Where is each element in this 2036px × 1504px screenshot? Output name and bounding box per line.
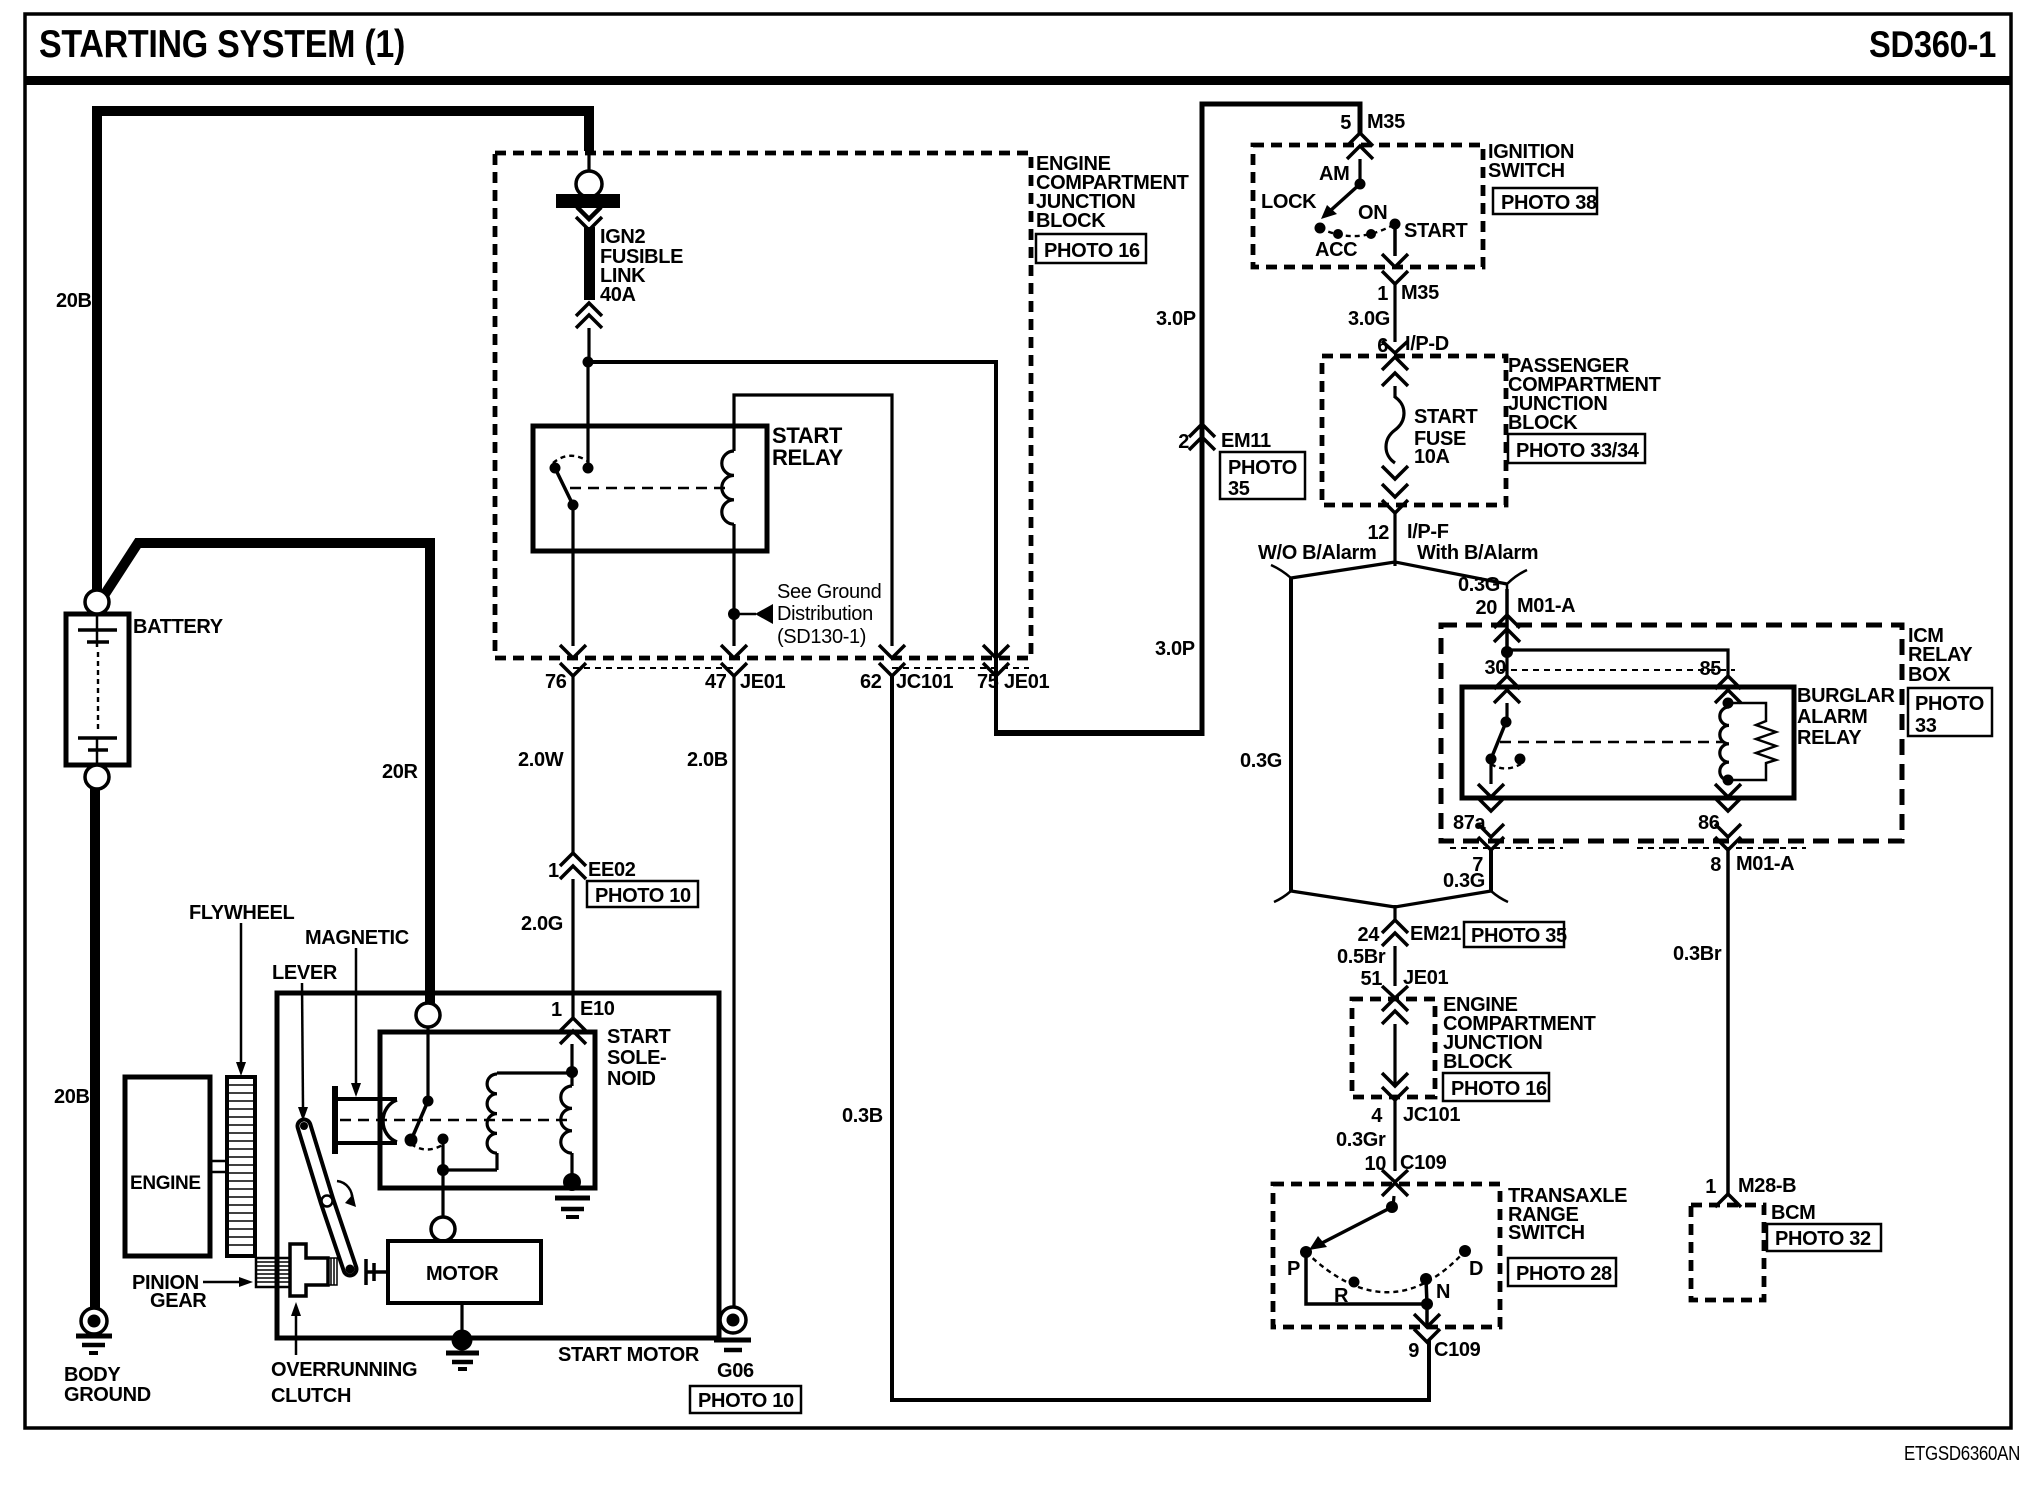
pin 86 chevrons down bbox=[1715, 784, 1741, 797]
svg-text:12: 12 bbox=[1367, 522, 1389, 544]
ignition START contact dot bbox=[1390, 219, 1401, 230]
svg-text:LOCK: LOCK bbox=[1261, 191, 1317, 213]
wire 87a to merge bbox=[1489, 850, 1493, 891]
relay switch blade bbox=[1491, 722, 1506, 759]
svg-text:PHOTO 38: PHOTO 38 bbox=[1501, 192, 1597, 214]
burglar alarm relay box bbox=[1462, 687, 1794, 798]
wire motor to ground bbox=[460, 1303, 463, 1336]
start motor outer box bbox=[277, 993, 719, 1338]
svg-text:G06: G06 bbox=[717, 1360, 754, 1382]
battery B01 bottom terminal circle bbox=[85, 765, 109, 789]
svg-text:E10: E10 bbox=[580, 998, 615, 1020]
solenoid switch pivot dot bbox=[423, 1096, 434, 1107]
svg-text:47: 47 bbox=[705, 671, 727, 693]
wire to switch wiper bbox=[1393, 1196, 1394, 1207]
wire pull-in coil bottom bbox=[495, 1153, 498, 1170]
svg-text:85: 85 bbox=[1699, 658, 1721, 680]
ignition wiper blade bbox=[1330, 184, 1360, 211]
svg-text:PHOTO 10: PHOTO 10 bbox=[698, 1390, 794, 1412]
wire merge left diagonal bbox=[1291, 891, 1395, 907]
start solenoid box bbox=[380, 1032, 595, 1188]
junction block chevrons up bbox=[1382, 998, 1408, 1011]
fusible link IGN2 body bbox=[584, 227, 595, 300]
wire merge to EM21 bbox=[1393, 905, 1396, 920]
svg-text:START: START bbox=[1414, 406, 1478, 428]
pin 85 chevrons up bbox=[1715, 676, 1741, 689]
svg-text:0.3Gr: 0.3Gr bbox=[1336, 1129, 1386, 1151]
ground distribution pointer bbox=[734, 613, 756, 616]
svg-text:BURGLAR: BURGLAR bbox=[1797, 685, 1895, 707]
wire 20R battery cable to start solenoid bbox=[103, 543, 430, 1003]
svg-text:M01-A: M01-A bbox=[1736, 853, 1794, 875]
wire 3.0P riser EM11 to M35 bbox=[1202, 104, 1360, 736]
svg-text:SOLE-: SOLE- bbox=[607, 1047, 666, 1069]
burglar alarm relay coil bbox=[1720, 707, 1729, 781]
motor terminal circle bbox=[431, 1217, 455, 1241]
svg-text:EE02: EE02 bbox=[588, 859, 636, 881]
svg-text:20B: 20B bbox=[56, 290, 92, 312]
transaxle wiper blade bbox=[1322, 1207, 1392, 1243]
wire to fuse bbox=[1393, 386, 1396, 398]
start relay mechanical dashed link bbox=[570, 487, 731, 489]
svg-text:MOTOR: MOTOR bbox=[426, 1263, 499, 1285]
relay switch blade end dot bbox=[1486, 754, 1497, 765]
svg-text:LEVER: LEVER bbox=[272, 962, 338, 984]
battery internal plates bbox=[78, 616, 117, 763]
svg-text:0.5Br: 0.5Br bbox=[1337, 946, 1386, 968]
wire 0.3B 62 to transaxle return bbox=[892, 676, 1429, 1400]
transaxle contacts dashed arc bbox=[1306, 1251, 1465, 1292]
svg-text:20R: 20R bbox=[382, 761, 419, 783]
svg-text:2: 2 bbox=[1178, 431, 1189, 453]
connector strip dashes 62-75 bbox=[892, 667, 1029, 669]
relay mechanical dashed link bbox=[1500, 741, 1723, 743]
connector C109-9 chevrons down bbox=[1414, 1314, 1440, 1327]
connector EM11 chevrons up bbox=[1189, 424, 1215, 437]
solenoid ground symbol bbox=[555, 1198, 590, 1217]
ICM relay box dashed border bbox=[1441, 625, 1902, 841]
svg-text:With B/Alarm: With B/Alarm bbox=[1417, 542, 1538, 564]
svg-text:I/P-F: I/P-F bbox=[1407, 521, 1449, 543]
photo 10 ref box EE02 bbox=[587, 881, 698, 907]
start relay box bbox=[533, 426, 767, 551]
transaxle D contact dot bbox=[1459, 1245, 1471, 1257]
photo 33 ref box bbox=[1908, 688, 1992, 736]
svg-text:35: 35 bbox=[1228, 478, 1250, 500]
wire START terminal down bbox=[1393, 224, 1397, 256]
svg-text:62: 62 bbox=[860, 671, 882, 693]
junction node dot bbox=[583, 357, 594, 368]
svg-text:JC101: JC101 bbox=[896, 671, 953, 693]
svg-text:MAGNETIC: MAGNETIC bbox=[305, 927, 409, 949]
solenoid mechanical dashed link bbox=[340, 1119, 568, 1121]
connector M01-A-7 chevrons down bbox=[1478, 824, 1504, 837]
passenger compartment junction block dashed box bbox=[1322, 356, 1506, 505]
svg-text:4: 4 bbox=[1371, 1105, 1383, 1127]
svg-text:24: 24 bbox=[1357, 924, 1380, 946]
svg-text:BODY: BODY bbox=[64, 1364, 121, 1386]
connector 76 chevrons bbox=[560, 645, 586, 658]
svg-text:PHOTO: PHOTO bbox=[1228, 457, 1297, 479]
ignition ON contact dot bbox=[1366, 229, 1376, 239]
svg-text:GROUND: GROUND bbox=[64, 1384, 151, 1406]
solenoid pull-in coil bbox=[487, 1074, 497, 1153]
fusible link chevrons down bbox=[577, 207, 601, 219]
switch input chevron up bbox=[1382, 1183, 1408, 1196]
svg-text:76: 76 bbox=[545, 671, 567, 693]
svg-text:3.0G: 3.0G bbox=[1348, 308, 1390, 330]
svg-text:BATTERY: BATTERY bbox=[133, 616, 224, 638]
wire coil low to 86 bbox=[1726, 780, 1729, 784]
solenoid 20R terminal circle bbox=[416, 1003, 440, 1027]
wire node to pull-in coil bbox=[443, 1168, 497, 1171]
start relay switch common dot bbox=[583, 463, 594, 474]
svg-text:9: 9 bbox=[1408, 1340, 1419, 1362]
engine junction block small dashed box bbox=[1352, 999, 1435, 1097]
transaxle range switch dashed box bbox=[1273, 1184, 1500, 1327]
ground G06 symbol bbox=[714, 1307, 751, 1350]
svg-text:ENGINE: ENGINE bbox=[130, 1173, 201, 1194]
wire 20B battery negative cable to body ground bbox=[90, 788, 100, 1309]
solenoid hold-in coil bbox=[561, 1086, 572, 1153]
wire 3.0P jog to EM11 riser bbox=[994, 730, 1202, 736]
photo 35 ref box EM21 bbox=[1464, 922, 1564, 947]
M01-A connector strip dashes right bbox=[1637, 847, 1806, 849]
svg-text:1: 1 bbox=[548, 860, 559, 882]
wire rail to connector 9 bbox=[1425, 1304, 1429, 1328]
ICM feed node dot bbox=[1501, 646, 1513, 658]
start fuse 10A element bbox=[1386, 397, 1404, 463]
wire hold-in coil to case ground bbox=[570, 1153, 573, 1186]
wire fusible link to junction node bbox=[587, 328, 590, 362]
fusible link input stub bbox=[587, 153, 590, 172]
transaxle N contact dot bbox=[1420, 1273, 1432, 1285]
lever arm bbox=[300, 1122, 355, 1274]
connector M28-B chevron up bbox=[1715, 1194, 1741, 1207]
transaxle P contact dot bbox=[1300, 1246, 1312, 1258]
svg-text:2.0B: 2.0B bbox=[687, 749, 728, 771]
lever rotation arrow bbox=[337, 1181, 352, 1200]
wire split left diagonal bbox=[1291, 562, 1395, 578]
ground distribution junction dot bbox=[728, 608, 740, 620]
svg-text:51: 51 bbox=[1360, 968, 1382, 990]
svg-text:20: 20 bbox=[1475, 597, 1497, 619]
svg-text:BOX: BOX bbox=[1908, 664, 1951, 686]
relay coil wire top bbox=[1726, 703, 1729, 707]
wire 2.0W 76 to EE02 bbox=[571, 676, 574, 854]
start relay moving blade bbox=[555, 468, 573, 505]
wire node to start relay switch bbox=[586, 362, 589, 467]
solenoid contact dashed arc bbox=[411, 1144, 444, 1150]
svg-text:EM11: EM11 bbox=[1221, 430, 1271, 452]
connector I/P-F chevron crossing bbox=[1382, 500, 1408, 513]
body ground G symbol bbox=[76, 1308, 112, 1353]
svg-text:SWITCH: SWITCH bbox=[1488, 160, 1565, 182]
wire I/P-F to split bbox=[1393, 513, 1396, 566]
photo 16 ref box lower bbox=[1443, 1073, 1549, 1101]
wire start relay coil low side to 47 JE01 bbox=[732, 524, 735, 646]
svg-text:START MOTOR: START MOTOR bbox=[558, 1344, 700, 1366]
svg-text:1: 1 bbox=[1377, 283, 1388, 305]
wire split right diagonal bbox=[1395, 562, 1507, 584]
motor ground symbol bbox=[446, 1353, 479, 1369]
clutch shaft bracket bbox=[366, 1259, 388, 1285]
svg-text:75: 75 bbox=[977, 671, 999, 693]
connector 62 JC101 chevrons bbox=[879, 645, 905, 658]
fusible link terminal circle bbox=[576, 171, 602, 197]
connector E10 chevrons up bbox=[560, 1018, 586, 1031]
wire 2.0B 47 to G06 bbox=[732, 676, 735, 1307]
svg-text:0.3G: 0.3G bbox=[1240, 750, 1282, 772]
svg-text:BLOCK: BLOCK bbox=[1036, 210, 1106, 232]
svg-text:PHOTO 16: PHOTO 16 bbox=[1451, 1078, 1547, 1100]
svg-text:STARTING SYSTEM (1): STARTING SYSTEM (1) bbox=[39, 23, 405, 66]
svg-text:I/P-D: I/P-D bbox=[1405, 333, 1449, 355]
solenoid ground dot bbox=[563, 1173, 581, 1191]
svg-text:RELAY: RELAY bbox=[772, 445, 843, 470]
relay switch input dot bbox=[1501, 717, 1512, 728]
svg-text:ON: ON bbox=[1358, 202, 1387, 224]
svg-text:2.0W: 2.0W bbox=[518, 749, 564, 771]
ignition ACC contact dot bbox=[1333, 229, 1343, 239]
svg-text:PHOTO: PHOTO bbox=[1915, 693, 1984, 715]
connector strip dashes 76-47 bbox=[573, 667, 734, 669]
svg-text:D: D bbox=[1469, 1258, 1483, 1280]
svg-text:30: 30 bbox=[1484, 657, 1506, 679]
ignition contacts dashed arc bbox=[1320, 224, 1395, 236]
photo 28 ref box bbox=[1508, 1258, 1616, 1286]
engine to flywheel coupling bbox=[210, 1161, 227, 1172]
ignition switch dashed box bbox=[1253, 145, 1483, 267]
fusible link bus bar bbox=[556, 194, 620, 208]
svg-text:START: START bbox=[607, 1026, 671, 1048]
wire 2.0G EE02 to E10 bbox=[571, 879, 574, 1018]
svg-text:1: 1 bbox=[1705, 1176, 1716, 1198]
start relay blade output dot bbox=[568, 500, 579, 511]
svg-text:PHOTO 10: PHOTO 10 bbox=[595, 885, 691, 907]
svg-text:40A: 40A bbox=[600, 284, 636, 306]
svg-text:NOID: NOID bbox=[607, 1068, 656, 1090]
svg-text:33: 33 bbox=[1915, 715, 1937, 737]
svg-text:0.3G: 0.3G bbox=[1443, 870, 1485, 892]
ignition AM terminal dot bbox=[1355, 179, 1366, 190]
wire 0.3Gr bbox=[1393, 1100, 1396, 1171]
connector JE01-51 chevron bbox=[1382, 986, 1408, 998]
svg-text:OVERRUNNING: OVERRUNNING bbox=[271, 1359, 417, 1381]
svg-text:GEAR: GEAR bbox=[150, 1290, 207, 1312]
photo 33/34 ref box bbox=[1508, 434, 1645, 463]
transaxle output node dot bbox=[1421, 1298, 1433, 1310]
title separator bar bbox=[25, 76, 2011, 85]
svg-text:FLYWHEEL: FLYWHEEL bbox=[189, 902, 294, 924]
svg-text:1: 1 bbox=[551, 999, 562, 1021]
svg-text:8: 8 bbox=[1710, 854, 1721, 876]
relay coil bottom dot bbox=[1723, 775, 1734, 786]
connector EM21 chevrons up bbox=[1382, 920, 1408, 933]
svg-text:SWITCH: SWITCH bbox=[1508, 1222, 1585, 1244]
svg-text:C109: C109 bbox=[1434, 1339, 1481, 1361]
engine box bbox=[125, 1077, 210, 1256]
connector M35-1 chevrons down bbox=[1382, 254, 1408, 267]
solenoid output node dot bbox=[437, 1164, 449, 1176]
wire P to output rail bbox=[1306, 1252, 1427, 1304]
svg-text:87a: 87a bbox=[1453, 812, 1487, 834]
connector M01-A-20 chevrons up bbox=[1494, 615, 1520, 628]
svg-text:N: N bbox=[1436, 1281, 1450, 1303]
wire switch output to 87a bbox=[1489, 759, 1492, 784]
transaxle wiper pivot dot bbox=[1386, 1201, 1398, 1213]
fusible link chevrons up bbox=[576, 303, 602, 316]
start relay contact dashed arc bbox=[553, 456, 589, 463]
connector 47 JE01 chevrons bbox=[721, 645, 747, 658]
relay switch fixed contact dot bbox=[1515, 754, 1526, 765]
svg-text:ALARM: ALARM bbox=[1797, 706, 1867, 728]
wire chevron to AM terminal bbox=[1358, 159, 1361, 184]
flywheel gear bbox=[227, 1077, 255, 1256]
fuse input chevrons up bbox=[1382, 357, 1408, 370]
wire solenoid output to motor bbox=[441, 1170, 444, 1217]
battery B01 body bbox=[66, 614, 129, 765]
svg-text:10A: 10A bbox=[1414, 446, 1450, 468]
svg-text:W/O B/Alarm: W/O B/Alarm bbox=[1258, 542, 1376, 564]
wire 3.0P node to connector 75 JE01 bbox=[588, 362, 996, 733]
pin 87a chevrons down bbox=[1478, 784, 1504, 797]
svg-text:20B: 20B bbox=[54, 1086, 90, 1108]
wire 0.5Br bbox=[1393, 946, 1396, 986]
svg-text:2.0G: 2.0G bbox=[521, 913, 563, 935]
svg-text:PHOTO 16: PHOTO 16 bbox=[1044, 240, 1140, 262]
junction block chevron down bbox=[1382, 1073, 1408, 1086]
wire E10 to coil node bbox=[570, 1044, 573, 1086]
svg-text:RELAY: RELAY bbox=[1797, 727, 1862, 749]
photo 32 ref box bbox=[1767, 1224, 1881, 1251]
svg-text:M01-A: M01-A bbox=[1517, 595, 1575, 617]
svg-text:0.3G: 0.3G bbox=[1458, 574, 1500, 596]
relay coil top dot bbox=[1723, 698, 1734, 709]
wire 3.0G bbox=[1393, 284, 1396, 342]
svg-text:M35: M35 bbox=[1401, 282, 1439, 304]
overrunning clutch coupler bbox=[328, 1258, 337, 1285]
photo 35 ref box EM11 bbox=[1220, 452, 1305, 499]
relay connector strip dashes bbox=[1500, 669, 1735, 671]
svg-text:P: P bbox=[1287, 1258, 1300, 1280]
engine compartment junction block dashed box bbox=[495, 153, 1031, 658]
relay switch input wire bbox=[1505, 703, 1508, 722]
connector 75 JE01 chevrons bbox=[983, 645, 1009, 658]
svg-text:JE01: JE01 bbox=[740, 671, 786, 693]
wire 0.3G left branch bbox=[1289, 578, 1293, 891]
svg-text:86: 86 bbox=[1698, 812, 1720, 834]
svg-text:Distribution: Distribution bbox=[777, 603, 873, 625]
svg-text:BLOCK: BLOCK bbox=[1508, 412, 1578, 434]
svg-text:CLUTCH: CLUTCH bbox=[271, 1385, 351, 1407]
wire contact to output node bbox=[441, 1139, 444, 1170]
svg-text:ETGSD6360AN: ETGSD6360AN bbox=[1904, 1443, 2020, 1465]
connector I/P-D chevron bbox=[1382, 341, 1408, 353]
svg-text:JC101: JC101 bbox=[1403, 1104, 1460, 1126]
wire start relay coil to 62 JC101 bbox=[734, 395, 892, 646]
svg-text:PHOTO 28: PHOTO 28 bbox=[1516, 1263, 1612, 1285]
svg-text:EM21: EM21 bbox=[1410, 923, 1461, 945]
connector M35-5 chevrons up bbox=[1347, 133, 1373, 146]
svg-text:BCM: BCM bbox=[1771, 1202, 1816, 1224]
photo 10 ref box G06 bbox=[690, 1386, 801, 1413]
M01-A connector strip dashes left bbox=[1450, 847, 1563, 849]
svg-text:(SD130-1): (SD130-1) bbox=[777, 626, 866, 648]
connector C109-10 chevron bbox=[1382, 1170, 1408, 1182]
wire coil top header bbox=[497, 1071, 572, 1074]
svg-text:JE01: JE01 bbox=[1403, 967, 1449, 989]
wire N contact to rail bbox=[1426, 1279, 1427, 1304]
wire 20B battery positive cable to fusible link bbox=[97, 111, 589, 591]
svg-text:See Ground: See Ground bbox=[777, 581, 881, 603]
wire start relay output to 76 bbox=[571, 505, 574, 646]
relay switch dashed arc bbox=[1491, 764, 1521, 769]
solenoid coil node dot bbox=[566, 1066, 578, 1078]
overrunning clutch body bbox=[290, 1244, 328, 1296]
connector EE02 chevrons up bbox=[560, 853, 586, 866]
pin 30 chevrons up bbox=[1494, 676, 1520, 689]
solenoid plunger yoke bbox=[335, 1086, 397, 1154]
battery B01 top terminal circle bbox=[85, 590, 109, 614]
svg-text:ACC: ACC bbox=[1315, 239, 1357, 261]
wire through junction block bbox=[1393, 1024, 1396, 1086]
pinion gear block bbox=[256, 1258, 290, 1287]
wire node to switch branch bbox=[1505, 652, 1508, 676]
wire 0.3Br BCM drop bbox=[1726, 850, 1730, 1194]
svg-text:PHOTO 33/34: PHOTO 33/34 bbox=[1516, 440, 1640, 462]
photo 16 ref box bbox=[1036, 234, 1146, 263]
start relay coil bbox=[722, 451, 734, 524]
svg-text:PHOTO 35: PHOTO 35 bbox=[1471, 925, 1567, 947]
svg-text:SD360-1: SD360-1 bbox=[1869, 24, 1996, 65]
svg-text:PHOTO 32: PHOTO 32 bbox=[1775, 1228, 1871, 1250]
start relay contact dot bbox=[550, 463, 561, 474]
solenoid switch blade end dot bbox=[405, 1134, 418, 1147]
solenoid switch blade bbox=[412, 1101, 428, 1138]
motor ground dot bbox=[452, 1330, 473, 1351]
svg-text:JE01: JE01 bbox=[1004, 671, 1050, 693]
ignition LOCK contact dot bbox=[1315, 223, 1326, 234]
wire merge right diagonal bbox=[1395, 891, 1491, 907]
svg-text:3.0P: 3.0P bbox=[1156, 308, 1196, 330]
wire terminal to solenoid switch bbox=[426, 1027, 429, 1101]
svg-text:RELAY: RELAY bbox=[1908, 644, 1973, 666]
svg-text:AM: AM bbox=[1319, 163, 1349, 185]
svg-text:M28-B: M28-B bbox=[1738, 1175, 1796, 1197]
svg-text:START: START bbox=[1404, 220, 1468, 242]
fuse output chevrons down bbox=[1382, 466, 1408, 479]
svg-text:3.0P: 3.0P bbox=[1155, 638, 1195, 660]
svg-text:BLOCK: BLOCK bbox=[1443, 1051, 1513, 1073]
svg-text:IGN2: IGN2 bbox=[600, 226, 646, 248]
photo 38 ref box bbox=[1493, 188, 1597, 214]
wire right branch to M01-A bbox=[1505, 589, 1509, 652]
connector M01-A-8 chevrons down bbox=[1715, 824, 1741, 837]
svg-text:5: 5 bbox=[1340, 112, 1351, 134]
transaxle R contact dot bbox=[1349, 1277, 1360, 1288]
svg-text:M35: M35 bbox=[1367, 111, 1405, 133]
wire node to coil branch bbox=[1507, 650, 1728, 676]
relay parallel resistor bbox=[1728, 703, 1776, 780]
solenoid fixed contact dot bbox=[438, 1134, 449, 1145]
svg-text:0.3B: 0.3B bbox=[842, 1105, 883, 1127]
BCM dashed box bbox=[1691, 1205, 1764, 1300]
motor box bbox=[388, 1241, 541, 1303]
svg-text:0.3Br: 0.3Br bbox=[1673, 943, 1722, 965]
